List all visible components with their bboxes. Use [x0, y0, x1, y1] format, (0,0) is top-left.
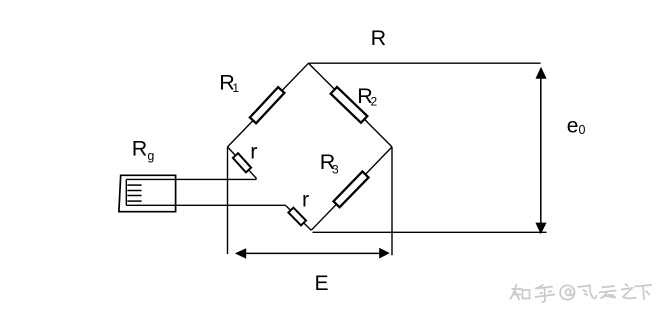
- resistor R2: [331, 87, 368, 123]
- strain gauge resistor r (upper): [233, 153, 251, 172]
- gauge Rg grid line 1: [127, 184, 141, 186]
- glyph @: [560, 285, 574, 299]
- wire right vertical from right node down to E line: [391, 147, 393, 255]
- watermark 知乎 @飞云之下 (drawn strokes): [510, 284, 652, 303]
- gauge Rg grid line 2: [127, 190, 141, 192]
- wire bottom line from bridge bottom node to e0 arrow: [313, 231, 547, 233]
- glyph 之: [621, 284, 637, 299]
- glyph 云: [599, 286, 617, 299]
- bridge edge right node to bottom node (wire): [311, 147, 392, 230]
- wire bottom lead from gauge box to lower r: [126, 204, 285, 206]
- glyph 乎: [535, 285, 555, 303]
- svg-text:r: r: [250, 140, 257, 164]
- resistor R3: [333, 172, 368, 208]
- wire top lead from gauge box to upper r: [126, 178, 256, 180]
- wire top line from bridge apex to e0 arrow: [309, 62, 541, 64]
- bridge edge apex to left node (wire): [228, 63, 309, 147]
- glyph 飞: [578, 286, 597, 299]
- wire left vertical from left node down to E line: [227, 147, 229, 254]
- glyph 知: [510, 284, 530, 300]
- bridge edge apex to right node (wire): [309, 63, 393, 147]
- gauge Rg inner element left edge: [125, 179, 127, 205]
- gauge Rg grid line 4: [127, 200, 141, 202]
- strain gauge lead diagonal: bottom lead wire to bottom node: [286, 206, 312, 231]
- svg-text:R: R: [371, 26, 387, 50]
- svg-text:E: E: [315, 272, 329, 295]
- strain gauge lead diagonal: left node to top lead wire: [228, 147, 257, 179]
- strain gauge resistor r (lower): [288, 208, 306, 226]
- dimension arrow E (horizontal double arrow): [235, 248, 390, 259]
- glyph 下: [635, 285, 653, 300]
- svg-text:r: r: [302, 188, 309, 212]
- gauge Rg outer box: [119, 175, 176, 211]
- gauge Rg grid line 3: [127, 195, 141, 197]
- dimension arrow e0 (vertical double arrow): [535, 67, 546, 234]
- resistor R1: [250, 87, 285, 123]
